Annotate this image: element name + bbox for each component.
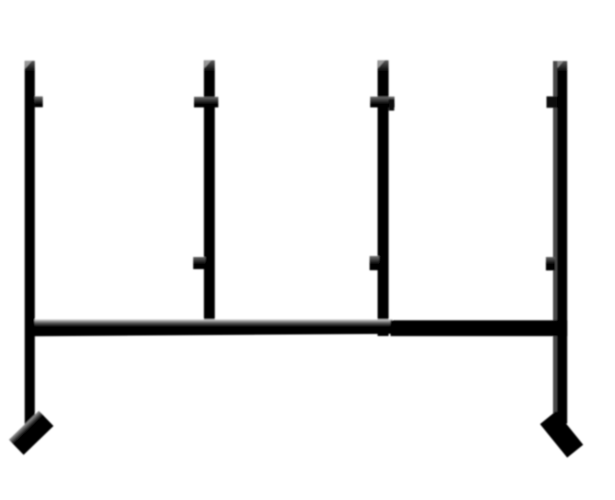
P2 mid stub (left side) bbox=[193, 257, 205, 269]
P3 top cross tab bbox=[370, 97, 394, 108]
P3 mid stub (left side) bbox=[370, 256, 380, 270]
P1 top-left cap highlight bbox=[25, 61, 32, 69]
post P2 (second upright) bbox=[204, 60, 215, 335]
P2 top cross tab bbox=[194, 97, 218, 108]
left angled foot bbox=[9, 411, 54, 455]
P4 top-left cap highlight bbox=[557, 61, 563, 68]
post P3 (third upright) bbox=[378, 60, 389, 336]
P1 top stub (right side) bbox=[35, 96, 43, 107]
P3 cross right-arm lower nub bbox=[389, 99, 394, 111]
post P1 (leftmost upright) bbox=[25, 61, 35, 433]
bottom rail right segment bbox=[391, 320, 568, 336]
P4 top stub (left side) bbox=[547, 96, 558, 107]
post P4 (rightmost upright) bbox=[557, 61, 567, 424]
bottom rail left segment bbox=[35, 319, 393, 336]
post P4 grey back strip bbox=[553, 61, 558, 424]
right angled foot bbox=[540, 411, 583, 458]
P4 mid stub (left side) bbox=[546, 257, 555, 270]
P3 top-left cap highlight bbox=[378, 61, 385, 69]
P2 top-left cap highlight bbox=[204, 61, 211, 69]
